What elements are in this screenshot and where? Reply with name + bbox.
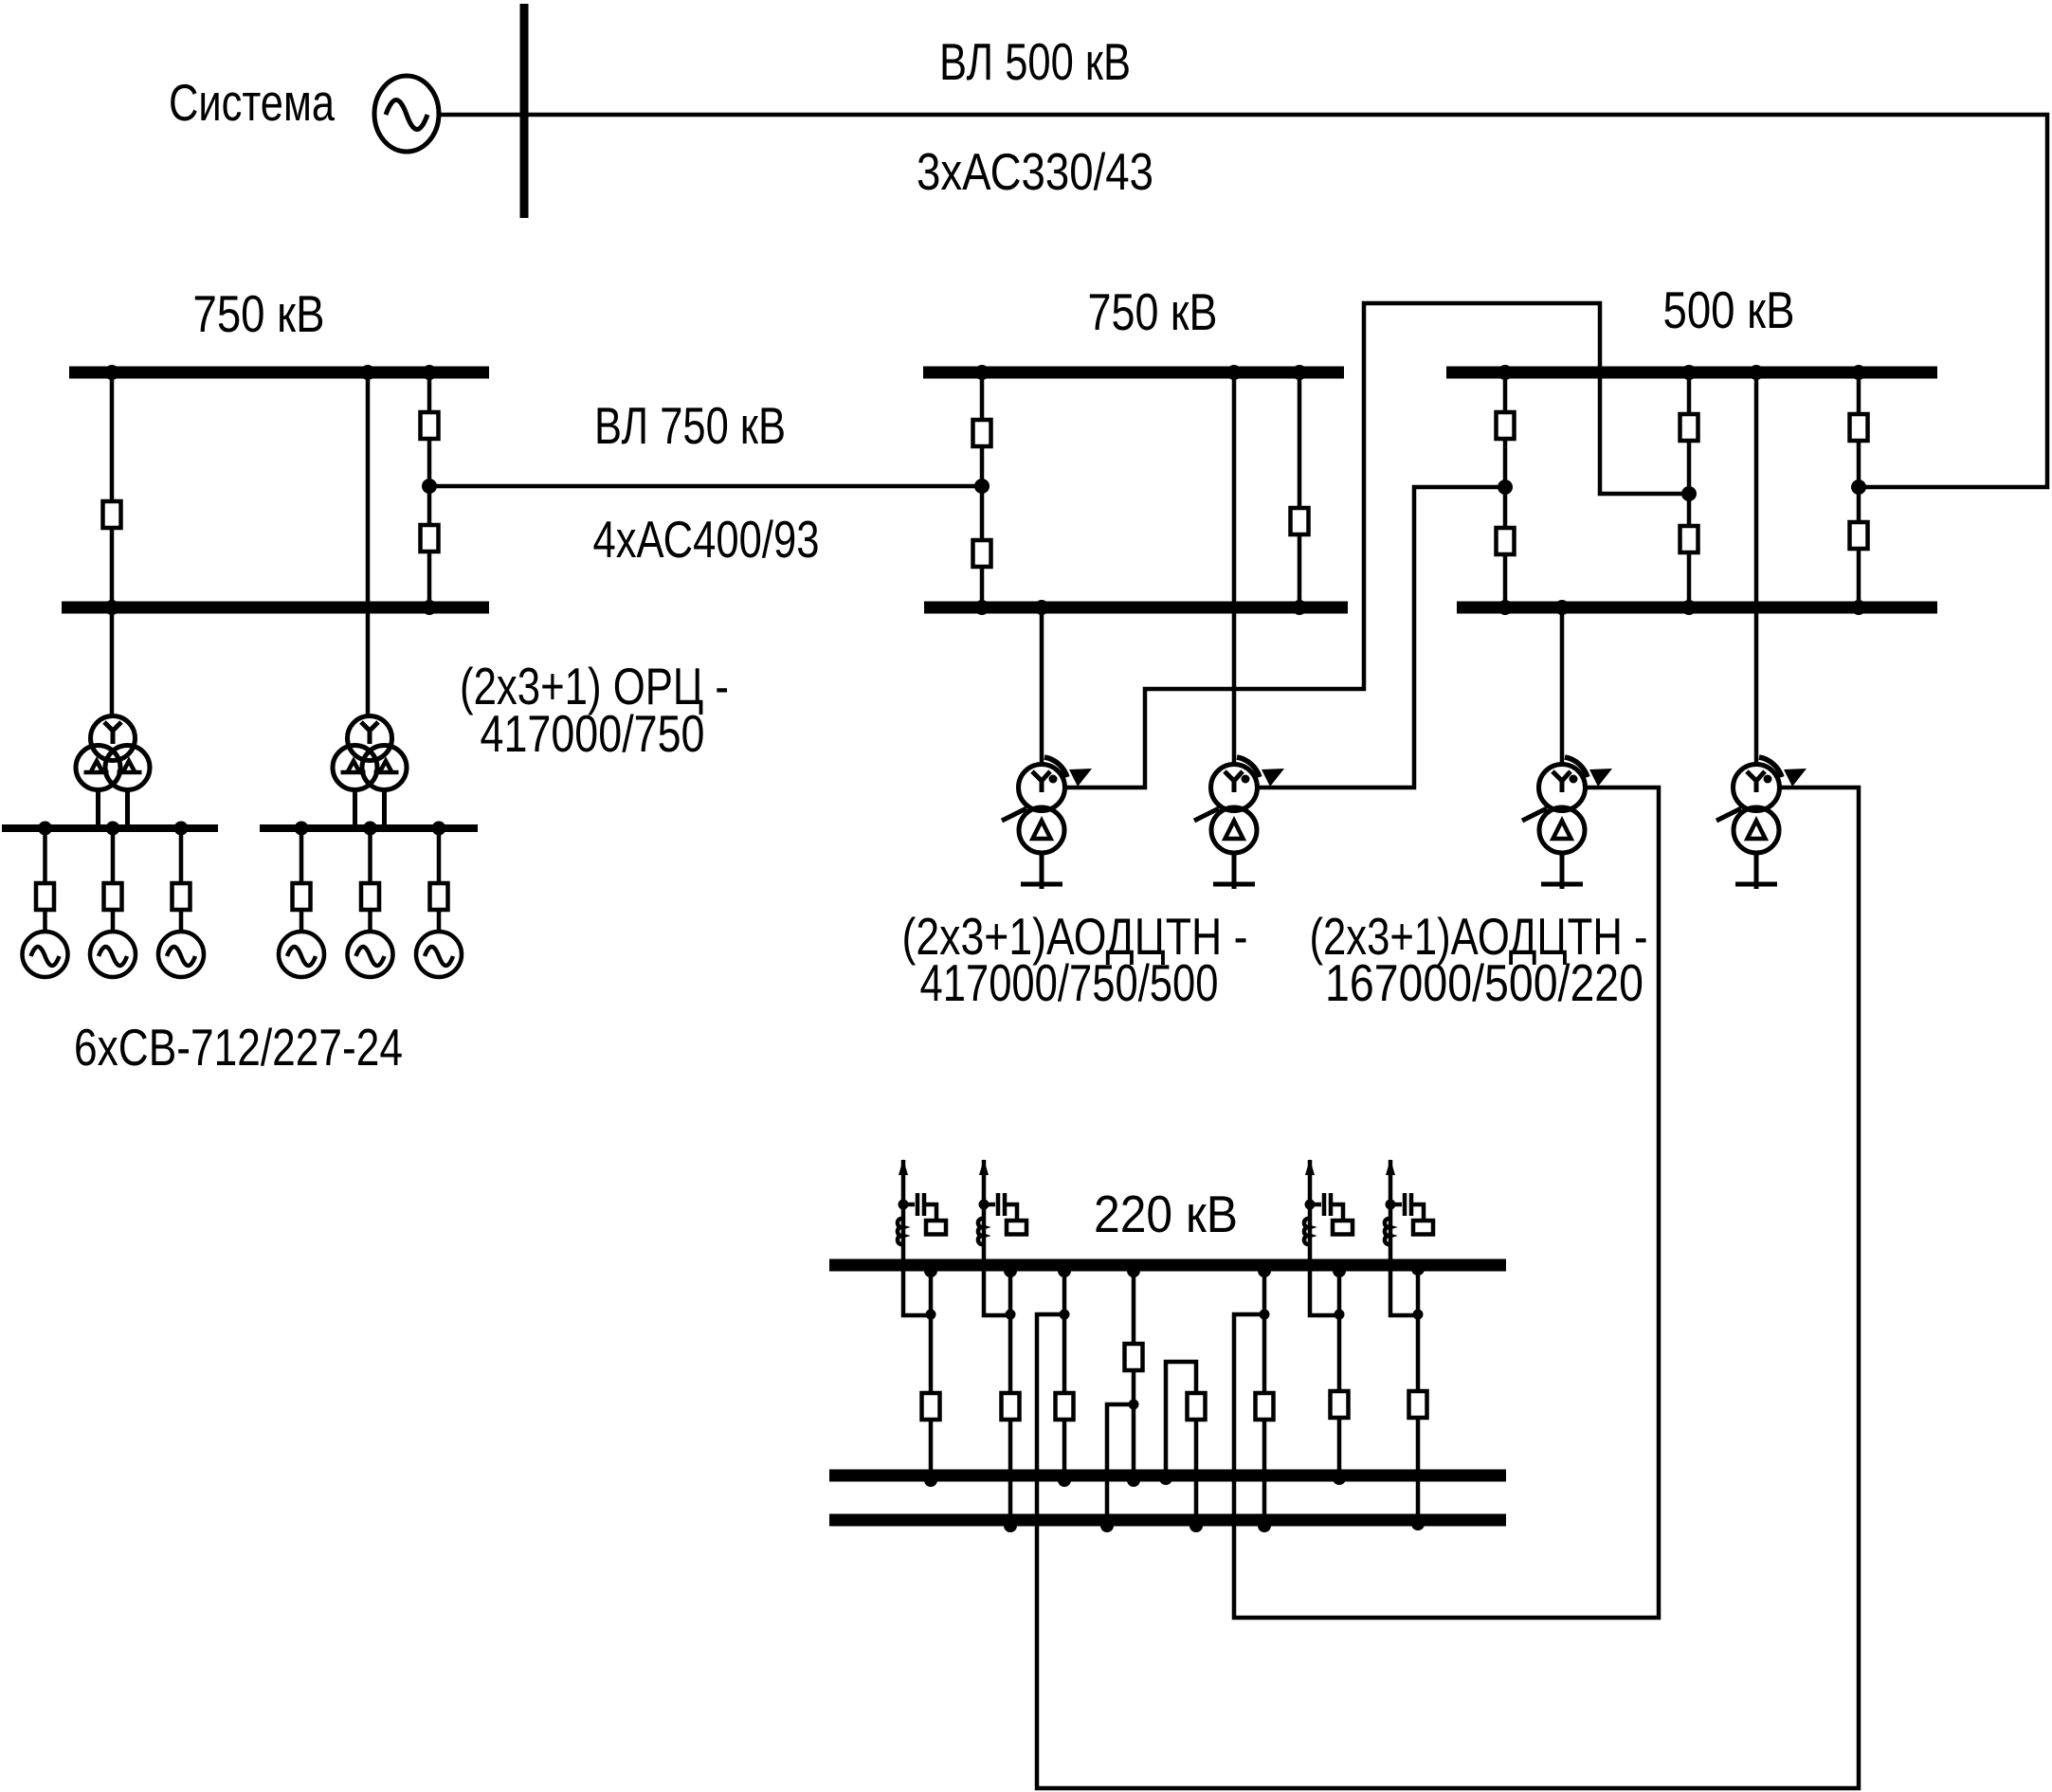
wire feeder F6 [1337, 1265, 1342, 1475]
wire T2 to gen bus [355, 789, 385, 825]
autotransformer AT1 [1002, 757, 1092, 889]
node T7 [1411, 1262, 1425, 1276]
node P5 [1411, 1517, 1425, 1530]
generator G5 [348, 932, 393, 977]
node L1 [104, 365, 119, 380]
node T2 [1004, 1264, 1017, 1277]
node R8 [1851, 600, 1866, 615]
svg-text:3хАС330/43: 3хАС330/43 [917, 142, 1153, 201]
breaker QF6 [1331, 1391, 1349, 1418]
wire bay M2 to AT2 [1232, 372, 1237, 763]
autotransformer AT2 [1194, 757, 1284, 889]
node M7 [974, 479, 990, 494]
svg-text:750 кВ: 750 кВ [1088, 282, 1218, 341]
node R1 [1498, 365, 1513, 380]
wire generator feeder 2 [111, 828, 116, 932]
busbar 750kV-2 bottom [924, 602, 1348, 614]
breaker QL2 [421, 412, 439, 439]
node M2 [1226, 365, 1242, 380]
generator busbar 1 [2, 824, 218, 832]
wire AT1 to 500kV bus link [1066, 303, 1689, 787]
node T5 [1258, 1264, 1271, 1277]
wire feeder F2 [1008, 1265, 1013, 1520]
wire bay R3 to AT4 [1754, 372, 1759, 763]
node L2 [360, 365, 375, 380]
svg-text:ВЛ 500 кВ: ВЛ 500 кВ [939, 32, 1131, 91]
svg-text:417000/750: 417000/750 [481, 704, 705, 763]
breaker QG1 [36, 883, 54, 910]
generator G6 [416, 932, 462, 977]
node J7 [1129, 1400, 1139, 1410]
breaker QL1 [103, 501, 121, 528]
wire feeder F7 [1416, 1265, 1421, 1520]
breaker QM3 [1291, 508, 1309, 534]
autotransformer AT4 [1716, 757, 1807, 889]
breaker QR1 [1497, 412, 1515, 439]
breaker QM1 [973, 420, 991, 446]
wire feeder F3 [1062, 1265, 1067, 1475]
busbar 750kV-1 bottom [62, 602, 489, 614]
node T4 [1127, 1264, 1140, 1277]
breaker QF3 [1056, 1393, 1074, 1420]
node P3 [1189, 1519, 1203, 1532]
transformer T2 [333, 716, 407, 790]
busbar 220kV bypass [829, 1514, 1506, 1527]
node R3 [1749, 365, 1764, 380]
node T3 [1058, 1264, 1071, 1277]
wire bay L2 [366, 372, 371, 717]
node M5 [1034, 600, 1049, 615]
breaker QF4 [1125, 1344, 1143, 1370]
node T1 [924, 1264, 937, 1277]
busbar 500kV top [1446, 367, 1937, 379]
node G1 [38, 822, 52, 836]
node S4 [1159, 1472, 1172, 1485]
reactor line group 2 [978, 1159, 1026, 1315]
svg-text:6хСВ-712/227-24: 6хСВ-712/227-24 [74, 1018, 403, 1077]
breaker QL3 [421, 525, 439, 552]
busbar 500kV bottom [1457, 602, 1937, 614]
node S3 [1127, 1474, 1140, 1487]
wire bay R4 [1857, 372, 1861, 607]
wire bay R1 [1503, 372, 1508, 607]
svg-text:500 кВ: 500 кВ [1663, 281, 1795, 339]
breaker QG5 [361, 883, 379, 910]
breaker QR3 [1680, 414, 1698, 441]
breaker QF5 [1256, 1393, 1274, 1420]
node R10 [1681, 486, 1697, 501]
reactor line group 4 [1385, 1159, 1433, 1315]
node R11 [1851, 480, 1866, 495]
breaker QF7 [1409, 1391, 1427, 1418]
wire generator feeder 6 [437, 828, 442, 932]
wire feeder F1 [929, 1265, 934, 1475]
node G5 [363, 822, 377, 836]
generator busbar 2 [260, 824, 478, 832]
wire ВЛ 500 кВ [528, 115, 2047, 487]
wire bay R2 [1687, 372, 1692, 607]
reactor line group 3 [1304, 1159, 1353, 1315]
node P2 [1100, 1519, 1114, 1532]
reactor line group 1 [898, 1159, 946, 1315]
wire T1 to gen bus [99, 789, 128, 825]
wire generator feeder 4 [300, 828, 304, 932]
breaker QG3 [173, 883, 191, 910]
breaker QF2 [1002, 1393, 1020, 1420]
node G6 [432, 822, 446, 836]
node M4 [974, 600, 990, 615]
breaker QF1 [922, 1393, 940, 1420]
busbar 220kV second [829, 1470, 1506, 1482]
node R2 [1681, 365, 1697, 380]
autotransformer AT3 [1522, 757, 1612, 889]
node J5 [1335, 1310, 1345, 1320]
node P4 [1258, 1519, 1271, 1532]
transformer T1 [76, 716, 150, 790]
wire AT2 to 500kV bus link [1259, 487, 1505, 787]
node M1 [974, 365, 990, 380]
breaker QR6 [1850, 522, 1868, 549]
breaker QG4 [293, 883, 311, 910]
node L3 [422, 365, 437, 380]
node J2 [1006, 1310, 1016, 1320]
generator G1 [23, 932, 68, 977]
generator G2 [90, 932, 136, 977]
node S2 [1058, 1474, 1071, 1487]
wire feeder F5 [1262, 1265, 1267, 1520]
breaker QR2 [1497, 528, 1515, 554]
generator G4 [279, 932, 324, 977]
busbar 750kV-2 top [923, 367, 1344, 379]
node R5 [1498, 600, 1513, 615]
wire generator feeder 1 [43, 828, 47, 932]
breaker QG6 [430, 883, 448, 910]
node R9 [1498, 480, 1513, 495]
breaker QT5 [1188, 1393, 1206, 1420]
node G2 [106, 822, 120, 836]
node L6 [422, 479, 437, 494]
wire source to system bus [439, 113, 528, 118]
svg-text:417000/750/500: 417000/750/500 [920, 953, 1219, 1012]
wire generator feeder 5 [368, 828, 372, 932]
wire AT1 feeder [1040, 607, 1044, 763]
node R7 [1681, 600, 1697, 615]
node R4 [1851, 365, 1866, 380]
node J6 [1413, 1310, 1424, 1320]
wire tie T5 [1166, 1362, 1196, 1520]
node G4 [295, 822, 309, 836]
node L4 [104, 600, 119, 615]
node G3 [174, 822, 189, 836]
wire bay L1 [110, 372, 115, 717]
svg-text:Система: Система [169, 73, 335, 132]
node M3 [1292, 365, 1307, 380]
wire AT3 to 220kV link [1234, 787, 1659, 1618]
node J1 [926, 1310, 936, 1320]
breaker QR5 [1850, 414, 1868, 441]
node J3 [1060, 1310, 1070, 1320]
node S1 [924, 1474, 937, 1487]
node T6 [1333, 1264, 1346, 1277]
svg-text:220 кВ: 220 кВ [1094, 1185, 1238, 1243]
wire feeder F4 [1132, 1265, 1136, 1475]
svg-text:ВЛ 750 кВ: ВЛ 750 кВ [594, 396, 786, 455]
wire bay L3 [427, 372, 432, 607]
node M6 [1292, 600, 1307, 615]
wire bay M1 [980, 372, 985, 607]
breaker QG2 [104, 883, 122, 910]
breaker QM2 [973, 540, 991, 567]
node S5 [1333, 1472, 1346, 1485]
node P1 [1004, 1519, 1017, 1532]
busbar 220kV main [829, 1259, 1506, 1272]
svg-text:750 кВ: 750 кВ [193, 284, 325, 343]
wire AT3 feeder [1560, 607, 1565, 763]
node J4 [1260, 1310, 1270, 1320]
svg-text:4хАС400/93: 4хАС400/93 [593, 510, 820, 569]
system busbar [520, 4, 529, 218]
svg-text:167000/500/220: 167000/500/220 [1325, 953, 1643, 1012]
node L5 [422, 600, 437, 615]
node R6 [1554, 600, 1570, 615]
wire AT4 to 220kV link [1037, 787, 1859, 1788]
source G system [374, 76, 439, 152]
wire ВЛ 750 кВ [429, 484, 982, 489]
generator G3 [158, 932, 204, 977]
wire tie T4a [1107, 1404, 1134, 1520]
wire bay M3 [1298, 372, 1302, 607]
breaker QR4 [1680, 526, 1698, 552]
wire generator feeder 3 [179, 828, 184, 932]
busbar 750kV-1 top [69, 367, 489, 379]
